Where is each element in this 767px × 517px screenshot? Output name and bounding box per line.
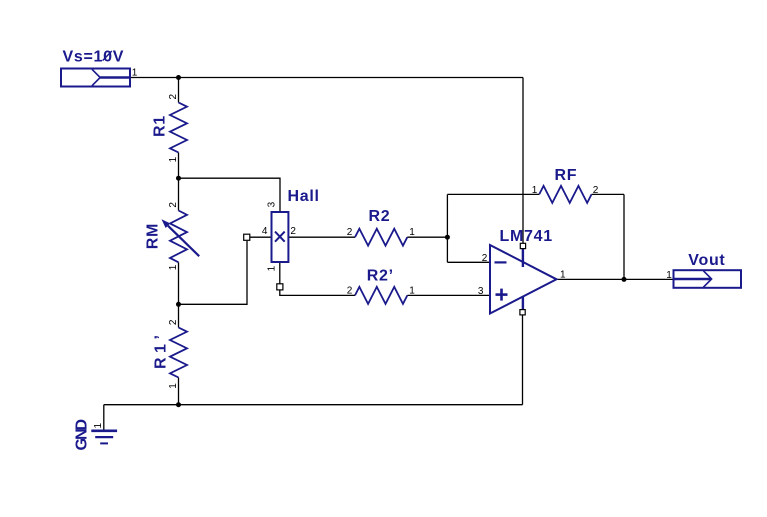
svg-text:4: 4 [262, 226, 268, 237]
wire RF right [592, 193, 625, 195]
svg-text:1: 1 [666, 270, 672, 281]
svg-text:2: 2 [347, 227, 353, 238]
pin square op-amp V+ [520, 243, 525, 248]
node A junction dot [176, 75, 181, 80]
wire ground rail [104, 404, 523, 406]
svg-text:1: 1 [168, 264, 179, 270]
wire supply vertical down to op-amp V+ pin square [522, 78, 524, 244]
op-amp U1 LM741 triangle [490, 245, 557, 314]
op-amp plus sign [496, 289, 508, 301]
resistor RF [539, 186, 591, 203]
node D junction dot (inverting input node) [445, 235, 450, 240]
svg-text:Vout: Vout [688, 252, 725, 269]
wire RF left [447, 193, 539, 195]
svg-text:1: 1 [168, 383, 179, 389]
svg-text:1: 1 [132, 68, 138, 79]
svg-text:2: 2 [168, 319, 179, 325]
pin square Hall pin 1 [277, 284, 283, 290]
svg-text:RF: RF [555, 167, 578, 184]
wire node D vertical RF-left to inverting input [446, 194, 448, 262]
svg-text:2: 2 [290, 226, 296, 237]
wire Hall pin2 to R2 [288, 236, 355, 238]
op-amp minus sign [495, 261, 507, 263]
wire Hall pin1 square to R2' [280, 290, 355, 296]
pin square Hall pin 4 [244, 234, 250, 240]
label Vs=10V [63, 49, 125, 66]
svg-text:Vs=10V: Vs=10V [63, 49, 125, 66]
svg-text:GND: GND [74, 420, 91, 451]
wire to op-amp pin 2 [447, 261, 490, 263]
svg-text:1: 1 [267, 265, 278, 271]
svg-text:RM: RM [144, 223, 161, 249]
wire R1 bottom to node B [178, 153, 180, 179]
wire R1 top stub [178, 78, 180, 103]
resistor R1 [170, 103, 187, 153]
pin square op-amp V- [520, 310, 525, 315]
wire R1' bottom to ground rail [178, 378, 180, 405]
wire top rail from Vs port to supply corner [130, 77, 523, 79]
svg-text:1: 1 [409, 286, 415, 297]
wire RM bottom to node C [178, 262, 180, 304]
wire Hall pin4 square to box [250, 236, 272, 238]
svg-text:Hall: Hall [288, 188, 320, 205]
wire GND stem [103, 405, 105, 430]
wire R1' top stub [178, 304, 180, 327]
wire op-amp output to Vout port [557, 278, 674, 280]
op-amp V+ supply stub [522, 249, 524, 268]
ground GND symbol [91, 431, 117, 444]
svg-text:LM741: LM741 [500, 228, 553, 245]
svg-text:1: 1 [93, 423, 104, 429]
wire Hall pin1 stub [279, 262, 281, 284]
potentiometer RM [162, 211, 200, 263]
wire node C to Hall pin 4 [179, 241, 248, 304]
svg-text:1: 1 [168, 156, 179, 162]
resistor R2' [355, 287, 407, 304]
resistor R2 [355, 229, 407, 246]
wire node B to Hall pin 3 [179, 178, 281, 212]
svg-text:R2’: R2’ [367, 268, 394, 285]
port Vs=10V [61, 69, 130, 87]
resistor R1' [170, 328, 187, 378]
svg-text:2: 2 [593, 185, 599, 196]
svg-text:2: 2 [168, 202, 179, 208]
svg-text:R1: R1 [152, 115, 169, 137]
svg-text:2: 2 [347, 286, 353, 297]
op-amp V- supply stub [522, 296, 524, 310]
wire RF feedback vertical [623, 194, 625, 279]
svg-text:R1’: R1’ [152, 331, 169, 369]
node C junction dot [176, 302, 181, 307]
svg-text:2: 2 [168, 94, 179, 100]
node B junction dot [176, 176, 181, 181]
svg-text:1: 1 [560, 269, 566, 280]
node D ground rail junction dot [176, 402, 181, 407]
svg-text:3: 3 [267, 201, 278, 207]
Hall element box [272, 212, 289, 262]
wire op-amp V- pin down to ground rail [522, 315, 524, 405]
wire R2 to node D [407, 236, 447, 238]
svg-text:1: 1 [532, 185, 538, 196]
wire RM top stub [178, 178, 180, 210]
port Vout [674, 270, 742, 288]
wire R2' to op-amp pin 3 [407, 294, 490, 296]
svg-text:2: 2 [482, 253, 488, 264]
node E output junction dot [622, 277, 627, 282]
svg-text:R2: R2 [369, 208, 391, 225]
svg-text:1: 1 [409, 227, 415, 238]
svg-text:3: 3 [478, 286, 484, 297]
